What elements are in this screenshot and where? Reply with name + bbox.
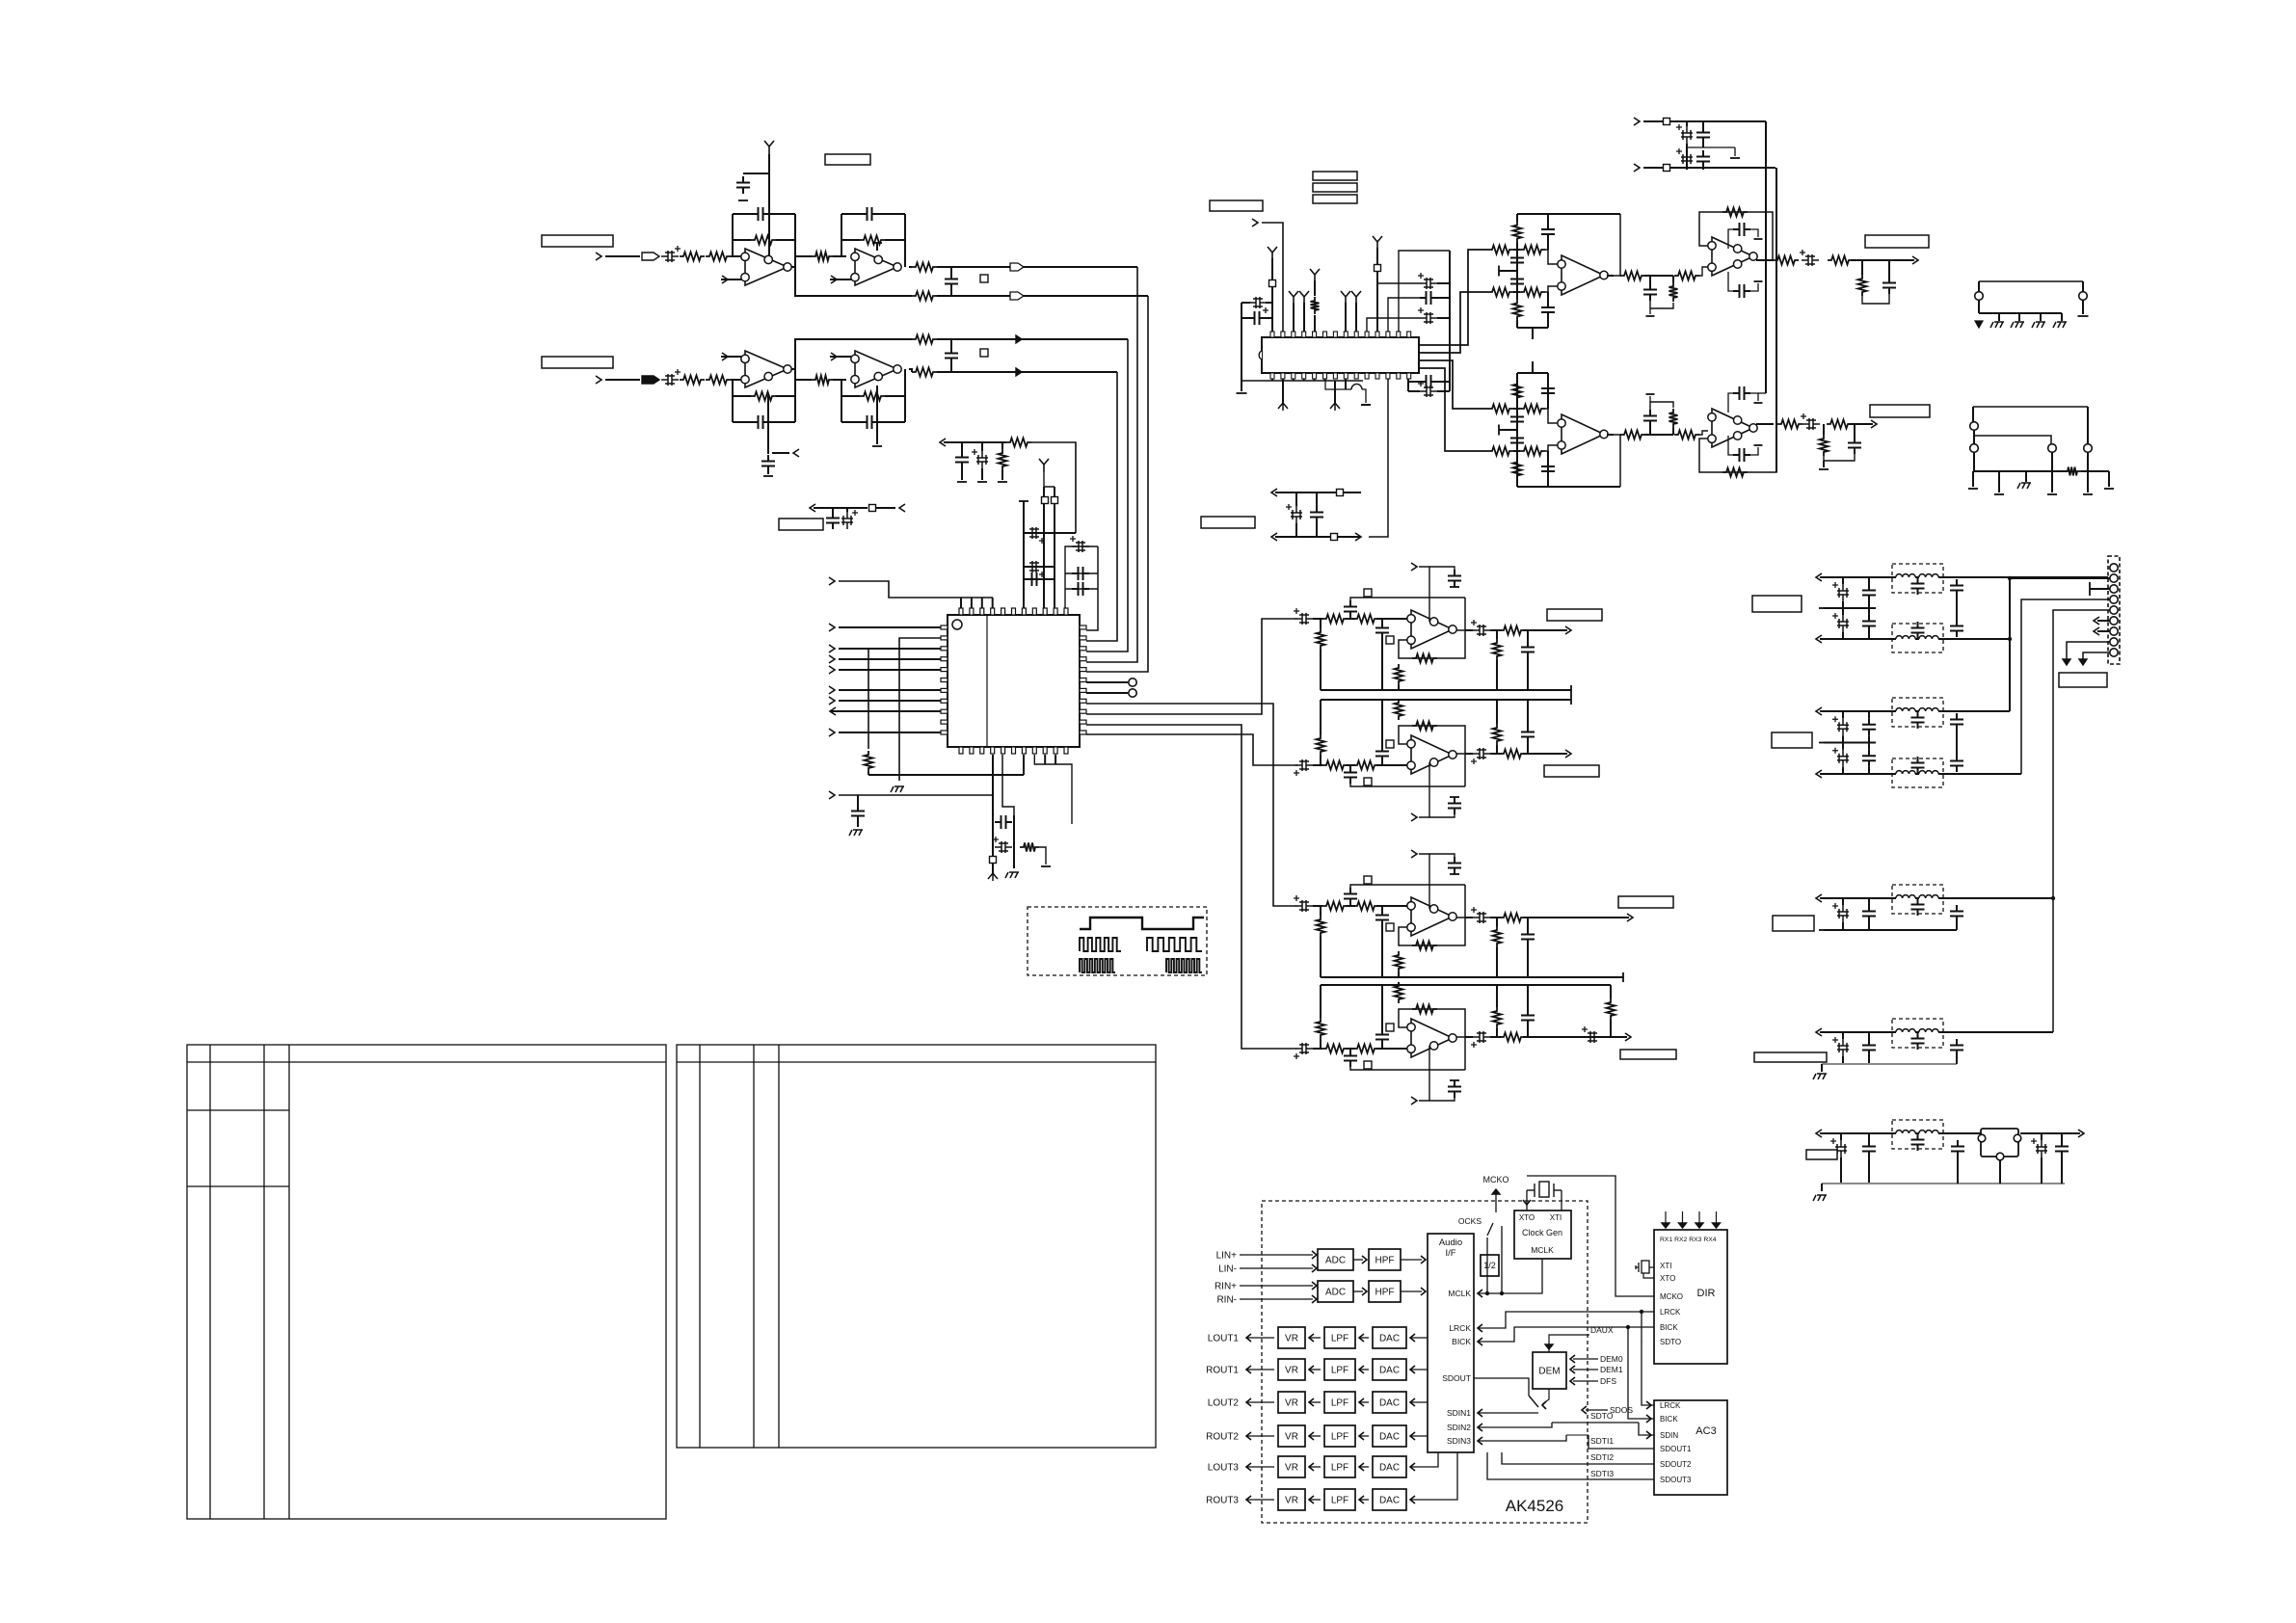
wire: [1517, 486, 1620, 488]
wire: [1320, 619, 1322, 628]
wire: [1943, 638, 2010, 640]
label L28: [1618, 896, 1673, 908]
resistor R9: [706, 376, 731, 385]
capacitor C25: [1310, 506, 1323, 523]
pin: [1080, 657, 1086, 661]
node N44: [1816, 1028, 1822, 1036]
node N32: [1627, 914, 1633, 921]
pin: [1292, 332, 1295, 337]
switch SW2: [1529, 1396, 1538, 1407]
wire BUS3: [1086, 339, 1128, 652]
power P3: [1268, 247, 1277, 260]
wire: [1938, 576, 1943, 578]
wire: [1938, 773, 1943, 775]
capacitor C14: [1026, 527, 1043, 539]
wire: [1716, 1211, 1718, 1226]
label L16: [1313, 183, 1357, 192]
wire: [1376, 248, 1378, 332]
svg-text:SDTI1: SDTI1: [1590, 1436, 1614, 1446]
wire: [1687, 146, 1735, 148]
capacitor C35: [1375, 622, 1389, 639]
resistor R71: [1722, 468, 1748, 477]
wire: [1262, 223, 1283, 332]
ground G8: [977, 481, 987, 483]
wire: [1465, 917, 1473, 918]
block DAC: [1373, 1392, 1406, 1413]
pin: [1281, 373, 1285, 379]
capacitor C1: [661, 251, 679, 262]
capacitor C9: [945, 347, 958, 364]
capacitor C61: [1696, 150, 1710, 168]
pin: [941, 688, 948, 692]
wire: [1513, 408, 1520, 410]
svg-text:LOUT1: LOUT1: [1208, 1334, 1240, 1344]
capacitor C63: [1510, 252, 1524, 269]
pin: [1397, 373, 1401, 379]
wire: [1650, 402, 1673, 410]
resistor R40: [1500, 914, 1525, 922]
wire: [1456, 598, 1465, 630]
wire: [1607, 434, 1614, 436]
block LPF: [1324, 1392, 1355, 1413]
pin: [1080, 625, 1086, 629]
wire: [1437, 317, 1450, 319]
node N4: [831, 353, 837, 360]
capacitor C87: [1950, 620, 1963, 637]
resistor R15: [865, 751, 873, 772]
wire: [1381, 926, 1383, 977]
wire: [960, 598, 962, 608]
wire: [1044, 472, 1055, 487]
resistor R10: [751, 392, 776, 401]
wire: [2010, 577, 2110, 579]
wire: [1523, 753, 1567, 755]
resistor R20: [1317, 628, 1325, 650]
wire: [1650, 301, 1673, 308]
jumper JP1: [1981, 1129, 2018, 1157]
wire: [1548, 1344, 1550, 1352]
wire: [1410, 1452, 1457, 1500]
wire: [1824, 929, 1957, 931]
wire: [1888, 260, 1890, 277]
wire: [2025, 471, 2027, 482]
ground G40: [2053, 322, 2067, 328]
pin P2: [2014, 1134, 2021, 1142]
waveform LRCK: [1080, 918, 1204, 929]
wire: [1523, 1036, 1627, 1038]
capacitor C55: [1473, 1031, 1490, 1043]
label L1: [542, 235, 613, 247]
svg-text:SDIN3: SDIN3: [1447, 1436, 1471, 1446]
svg-text:DEM1: DEM1: [1600, 1365, 1623, 1374]
wire: [1892, 638, 1896, 640]
wire: [1359, 1466, 1369, 1468]
wire: [1938, 897, 1943, 899]
wire: [2081, 470, 2109, 472]
wire: [1516, 409, 1518, 451]
wire: [1377, 282, 1420, 284]
resistor R13: [912, 368, 937, 377]
wire: [1388, 298, 1420, 332]
wire: [1824, 454, 1855, 461]
inductor I4: [1919, 636, 1938, 639]
wire: [1547, 373, 1549, 400]
resistor R16: [999, 449, 1007, 470]
resistor R68: [1620, 431, 1645, 439]
capacitor C24: [1291, 506, 1302, 523]
label L27: [1386, 923, 1394, 931]
wire: [1628, 1327, 1654, 1419]
resistor R45: [1395, 982, 1403, 1003]
resistor R67: [1513, 381, 1522, 402]
capacitor C48: [1448, 857, 1461, 874]
ground G6: [849, 830, 863, 836]
wire: [1614, 435, 1621, 487]
label L29: [1364, 1061, 1372, 1069]
wire VBUSB: [1775, 168, 1777, 472]
wire: [1820, 710, 1892, 712]
wire: [1456, 754, 1465, 786]
wire: [992, 598, 994, 608]
capacitor C97: [1862, 905, 1876, 922]
wire: [1303, 303, 1305, 332]
wire: [1376, 764, 1407, 766]
wire: [1527, 985, 1529, 1009]
wire: [743, 173, 769, 174]
capacitor C53: [1375, 1028, 1389, 1046]
resistor R52: [1488, 288, 1513, 297]
svg-text:MCLK: MCLK: [1448, 1289, 1471, 1298]
wire: [1398, 972, 1400, 977]
pin: [1022, 747, 1026, 754]
capacitor C21: [995, 841, 1012, 853]
wire: [1309, 1369, 1321, 1370]
wire: [1499, 429, 1517, 431]
capacitor C77: [1733, 448, 1750, 462]
capacitor C102: [1911, 1032, 1925, 1050]
wire: [1345, 379, 1347, 389]
wire: [2067, 642, 2110, 659]
svg-text:HPF: HPF: [1375, 1288, 1395, 1298]
block DAC: [1373, 1327, 1406, 1348]
ground G12: [1041, 865, 1051, 867]
wire: [1325, 379, 1351, 389]
wire: [1346, 905, 1355, 907]
pin: [941, 709, 948, 713]
ground G45: [2083, 493, 2093, 495]
node N11: [829, 666, 835, 674]
wire: [1732, 392, 1734, 394]
wire: [1309, 1401, 1321, 1403]
op-amp O8: [1411, 1019, 1453, 1057]
capacitor C16: [1026, 572, 1043, 586]
resistor R14: [912, 335, 937, 344]
pin: [1333, 332, 1337, 337]
wire: [1868, 1032, 1870, 1039]
wire: [1513, 291, 1520, 293]
node N29: [1411, 813, 1417, 821]
power VDN: [988, 873, 998, 881]
capacitor C7: [752, 415, 769, 429]
wire: [1750, 447, 1758, 455]
wire: [1024, 578, 1055, 580]
svg-text:1/2: 1/2: [1483, 1261, 1496, 1270]
capacitor C56: [1521, 1009, 1535, 1026]
label L38: [1773, 916, 1814, 931]
wire: [2083, 652, 2110, 659]
wire: [1419, 292, 1488, 353]
node N48: [2094, 627, 2099, 635]
wire: [1868, 608, 1870, 615]
pin: [1375, 373, 1379, 379]
wire: [1324, 379, 1326, 381]
wire: [1419, 292, 1488, 353]
wire: [1868, 632, 1870, 639]
wire: [1034, 755, 1072, 824]
wire: [1840, 1157, 1842, 1184]
wire: [795, 379, 812, 381]
wire: [1362, 389, 1366, 403]
wire: [1516, 250, 1518, 292]
svg-text:LRCK: LRCK: [1660, 1308, 1681, 1317]
wire: [1702, 121, 1704, 126]
wire: [1429, 854, 1455, 860]
wire: [1346, 764, 1355, 766]
wire: [2020, 1132, 2080, 1134]
capacitor C42: [1448, 797, 1461, 814]
wire: [1408, 381, 1420, 383]
wire: [1943, 576, 2110, 578]
wire: [2040, 313, 2042, 321]
pin: [991, 608, 995, 615]
ground G2: [738, 200, 748, 201]
capacitor C64: [1510, 273, 1524, 290]
pin: [1302, 373, 1306, 379]
capacitor C37: [1473, 625, 1490, 636]
wire: [1419, 360, 1488, 409]
wire: [1938, 1132, 1943, 1134]
wire: [1868, 601, 1870, 608]
wire: [1686, 121, 1688, 126]
wire: [1523, 629, 1567, 631]
wire: [1672, 428, 1674, 435]
capacitor C107: [1951, 1140, 1964, 1157]
wire: [1868, 898, 1870, 905]
node N46: [2078, 1130, 2084, 1137]
pin: [1386, 373, 1390, 379]
svg-text:DIR: DIR: [1697, 1288, 1716, 1299]
pin: [1032, 608, 1036, 615]
node N26: [1252, 219, 1258, 226]
capacitor C106: [1911, 1133, 1925, 1151]
resistor R64: [1520, 405, 1545, 413]
wire: [1478, 1327, 1654, 1342]
svg-text:DAC: DAC: [1379, 1366, 1400, 1376]
power P8: [1351, 291, 1361, 305]
wire BUS4: [1086, 372, 1117, 641]
ground G14: [1450, 586, 1459, 588]
wire: [1241, 380, 1363, 382]
wire: [2009, 578, 2011, 711]
wire: [1699, 424, 1776, 472]
wire: [1429, 811, 1455, 817]
inductor I2: [1919, 574, 1938, 577]
svg-text:DAC: DAC: [1379, 1398, 1400, 1409]
label L2: [980, 275, 988, 282]
wire: [731, 379, 745, 381]
svg-text:SDTI3: SDTI3: [1590, 1469, 1614, 1478]
wire: [1527, 1176, 1654, 1296]
wire: [1842, 711, 1844, 718]
resistor R70: [1674, 431, 1699, 439]
wire: [795, 255, 812, 257]
pin: [1354, 373, 1358, 379]
wire: [981, 598, 983, 608]
pin: [1407, 332, 1411, 337]
label L40: [1806, 1150, 1837, 1159]
node N16: [829, 577, 835, 585]
node N3: [722, 353, 728, 360]
ground G24: [1754, 280, 1763, 282]
svg-text:ROUT1: ROUT1: [1206, 1366, 1239, 1376]
resistor R23: [1412, 654, 1437, 663]
wire: [876, 386, 878, 444]
capacitor C39: [1295, 759, 1313, 771]
wire: [795, 267, 912, 296]
wire: [1456, 885, 1465, 918]
resistor R54: [1513, 300, 1522, 321]
node N31: [1411, 850, 1417, 858]
wire: [1842, 898, 1844, 905]
label L41: [2059, 673, 2107, 687]
wire: [1943, 1031, 2053, 1033]
wire: [768, 154, 770, 255]
wire: [1566, 1434, 1589, 1436]
resistor R7: [912, 292, 937, 301]
node N41: [1816, 707, 1822, 715]
wire: [1478, 1312, 1654, 1328]
wire: [1399, 251, 1450, 332]
ground G15: [1570, 685, 1572, 695]
capacitor C43: [1473, 748, 1490, 759]
capacitor C12: [955, 451, 969, 468]
label L5: [980, 349, 988, 357]
wire: [1320, 650, 1322, 690]
inductor I7: [1896, 771, 1915, 774]
pin P11: [2110, 638, 2118, 646]
label L17: [1313, 195, 1357, 203]
label L11: [1201, 517, 1255, 528]
wire: [1320, 906, 1322, 916]
wire: [1699, 212, 1773, 260]
wire: [1055, 755, 1056, 764]
block DEM: [1533, 1352, 1566, 1389]
pin: [980, 747, 984, 754]
wire: [1649, 308, 1651, 314]
wire: [1359, 1337, 1369, 1339]
svg-text:BICK: BICK: [1452, 1337, 1471, 1346]
capacitor C49: [1473, 912, 1490, 923]
svg-text:VR: VR: [1285, 1366, 1298, 1376]
resistor R61: [1858, 275, 1867, 296]
ground G29: [1754, 444, 1763, 446]
wire: [1649, 396, 1651, 402]
wire: [899, 638, 941, 781]
block VR: [1278, 1359, 1305, 1380]
block ClockGen: [1514, 1211, 1571, 1259]
resistor R32: [1493, 724, 1502, 745]
pin: [1292, 373, 1295, 379]
capacitor C29: [1420, 291, 1437, 305]
wire: [1821, 1184, 1823, 1191]
waveform DATA1: [1080, 959, 1115, 972]
node N22: [899, 504, 905, 512]
power P4: [1289, 291, 1298, 305]
wire: [1381, 619, 1383, 622]
pin: [1344, 332, 1348, 337]
capacitor C15: [1026, 561, 1043, 572]
block DAC: [1373, 1359, 1406, 1380]
capacitor C26: [1249, 297, 1267, 308]
power P6: [1310, 269, 1320, 282]
resistor R35: [1322, 902, 1348, 911]
wire: [1381, 1046, 1383, 1049]
node N10: [829, 655, 835, 663]
svg-text:VR: VR: [1285, 1398, 1298, 1409]
wire: [1842, 743, 1844, 750]
block LPF: [1324, 1456, 1355, 1477]
node N8: [829, 624, 835, 631]
wire: [1320, 1039, 1322, 1049]
capacitor C62: [1541, 224, 1555, 241]
wire: [1437, 390, 1450, 392]
wire: [1532, 361, 1534, 373]
wire: [2061, 1157, 2063, 1184]
wire: [1868, 922, 1870, 930]
inductor I8: [1919, 771, 1938, 774]
wire: [1820, 773, 1892, 775]
wire: [1670, 120, 1766, 122]
wire: [1643, 167, 1663, 169]
wire: [1499, 270, 1517, 272]
capacitor C30: [1420, 278, 1437, 289]
node N54: [1970, 444, 1979, 453]
wire: [1545, 250, 1558, 264]
wire: [1496, 1028, 1498, 1037]
wire: [1820, 1132, 1892, 1134]
wire: [1820, 576, 1892, 578]
wire: [1353, 1259, 1363, 1261]
wire: [1868, 711, 1870, 718]
op-amp O11: [1562, 414, 1604, 454]
node N49: [2063, 659, 2070, 665]
ground G30: [1819, 468, 1829, 470]
op-amp O2: [855, 249, 897, 285]
node N36: [1634, 164, 1640, 172]
pin: [1012, 608, 1016, 615]
wire: [1517, 327, 1548, 329]
waveform BICK1: [1080, 938, 1121, 951]
wire: [1527, 658, 1529, 690]
wire: [1542, 1389, 1549, 1404]
ground G16: [1450, 796, 1459, 798]
node N14: [829, 729, 835, 736]
capacitor C86: [1950, 579, 1963, 597]
wire: [1419, 567, 1429, 622]
timing diagram T1: [1028, 907, 1207, 975]
wire: [1956, 731, 1958, 743]
node N43: [1816, 894, 1822, 902]
